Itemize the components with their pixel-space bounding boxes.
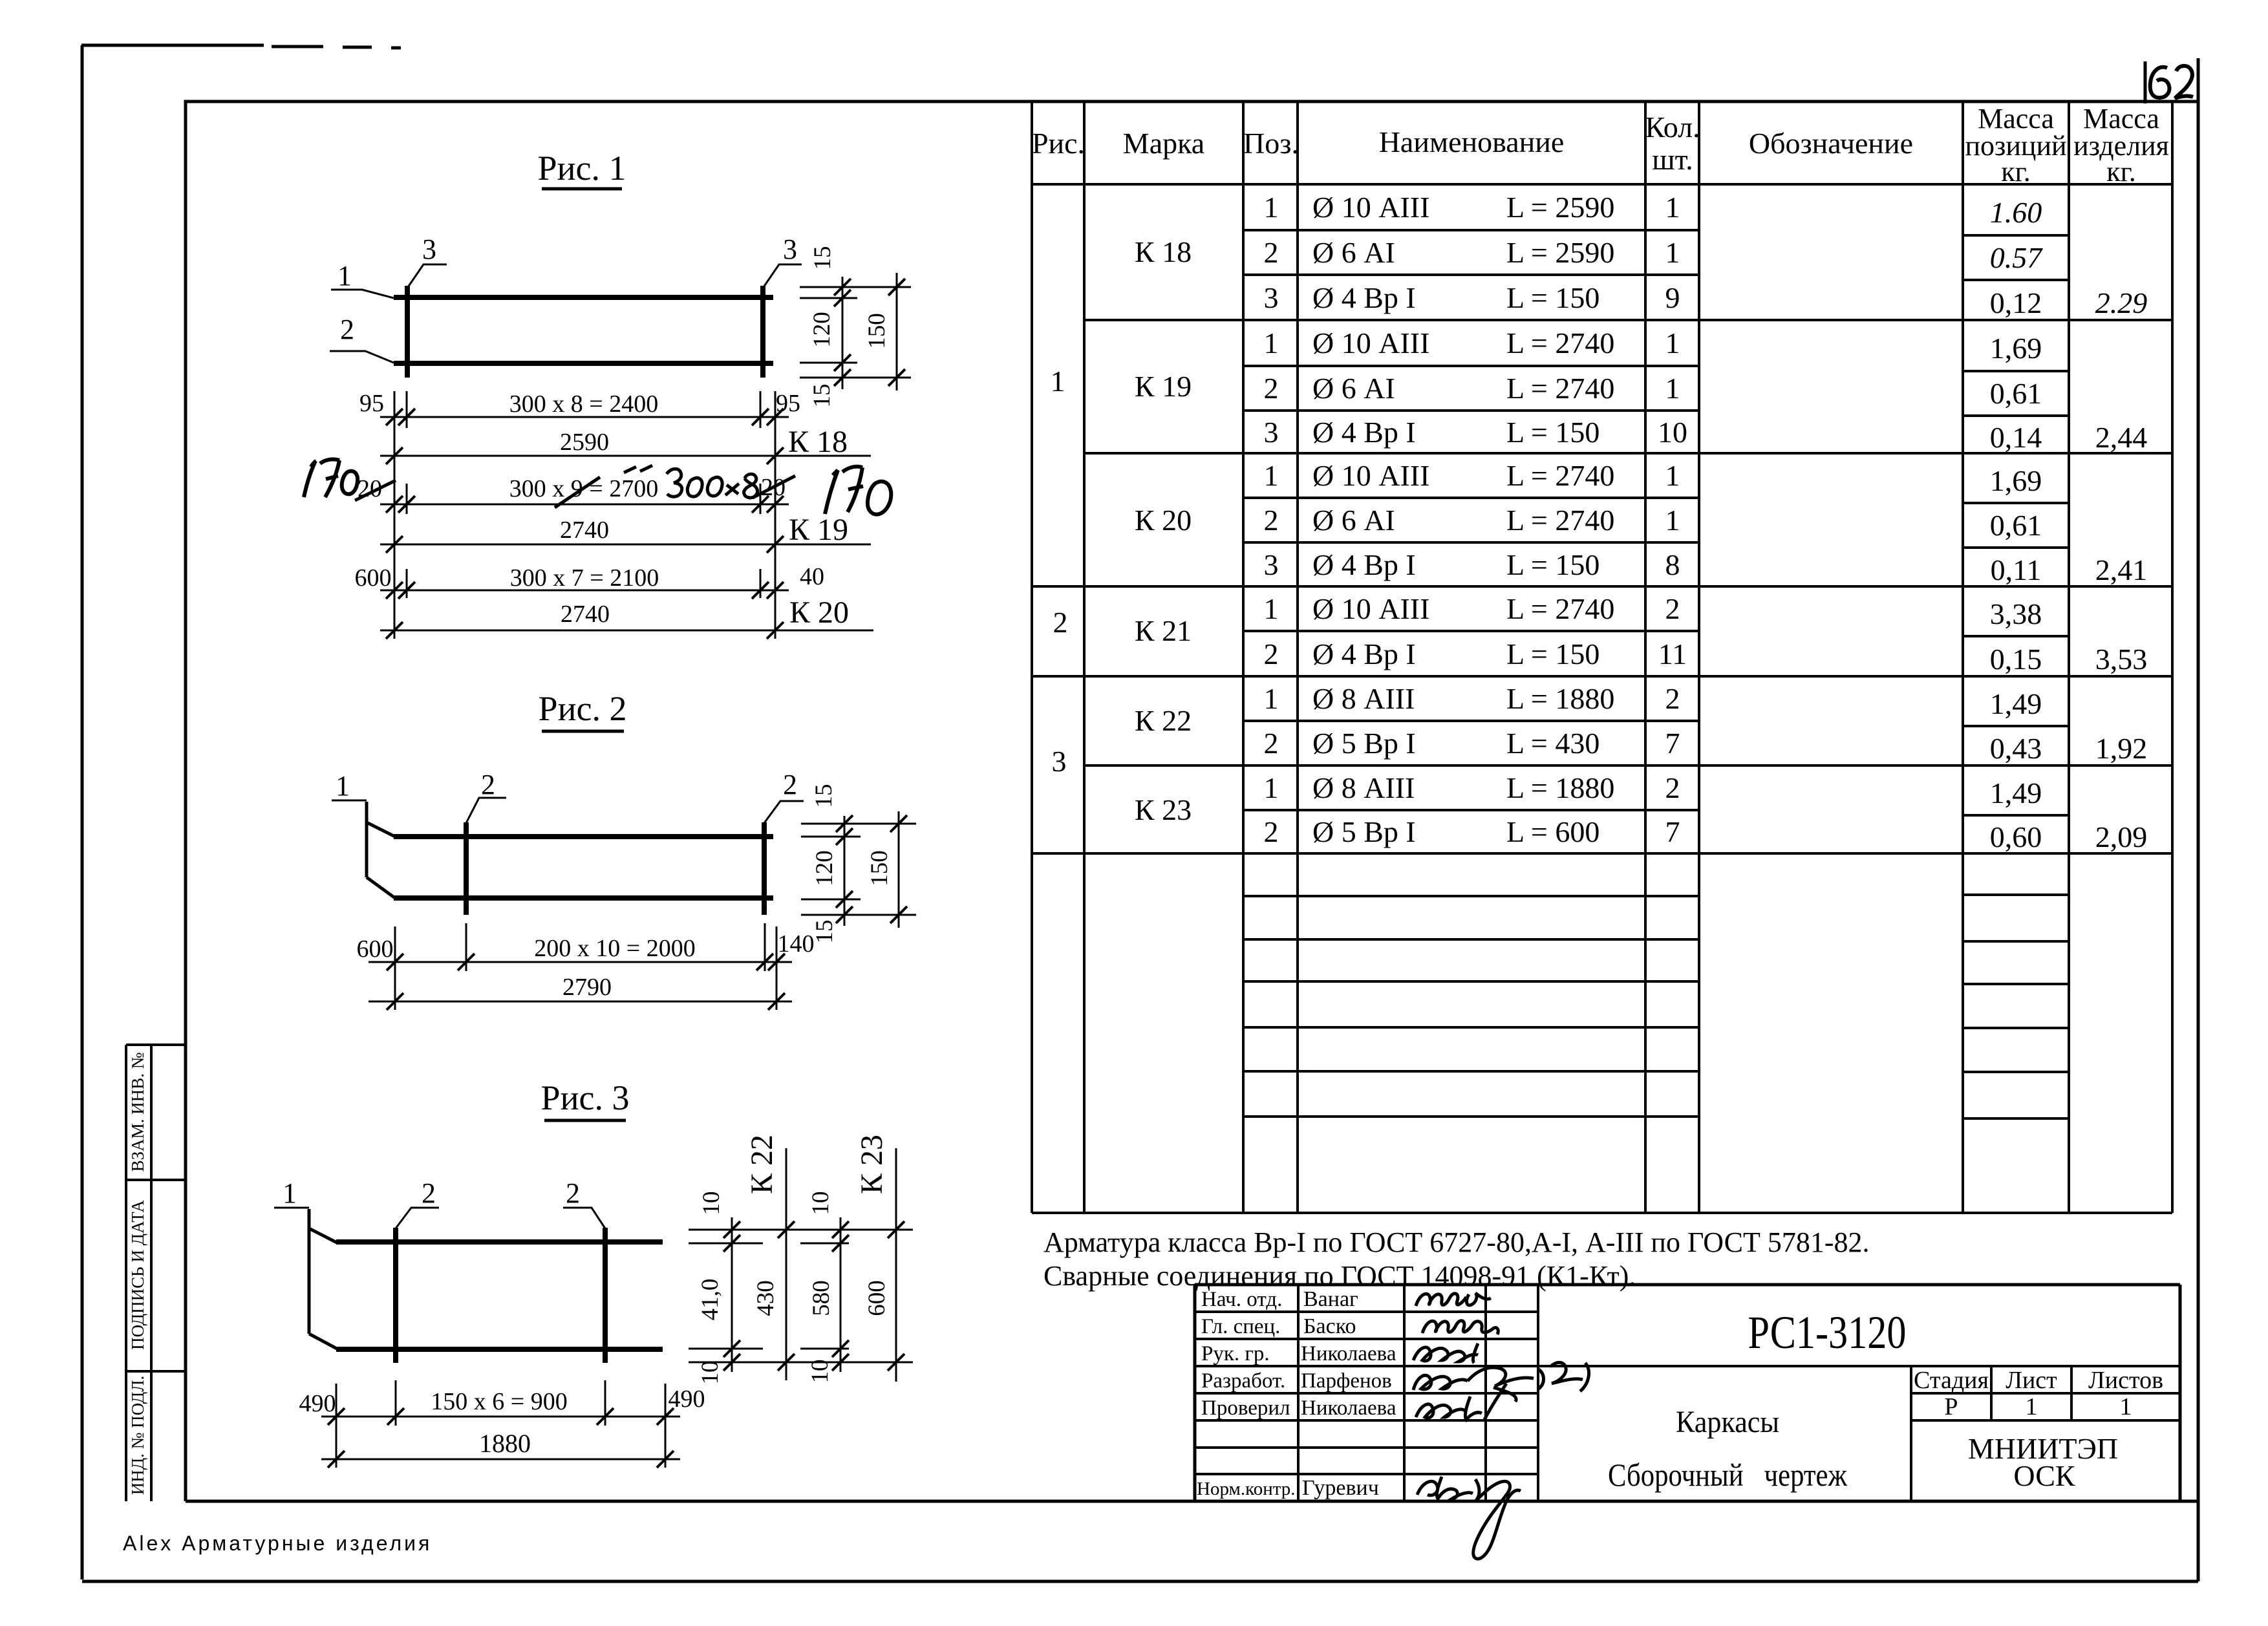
svg-text:0.57: 0.57 (1990, 241, 2044, 274)
signature Баско (1422, 1321, 1498, 1334)
svg-text:кг.: кг. (2106, 156, 2135, 187)
svg-text:3: 3 (783, 233, 797, 265)
fig3 right extension lines (689, 1230, 913, 1362)
svg-text:3: 3 (1264, 416, 1279, 449)
svg-text:Ø 10 АIII: Ø 10 АIII (1312, 326, 1429, 359)
svg-text:Разработ.: Разработ. (1201, 1369, 1285, 1393)
fig1 left cross bar (поз.3) (405, 286, 410, 378)
svg-text:10: 10 (1658, 416, 1687, 449)
title block column lines (1298, 1285, 2071, 1501)
svg-text:Ø 5 Вр I: Ø 5 Вр I (1312, 727, 1416, 760)
svg-text:1: 1 (1665, 236, 1680, 269)
svg-text:10: 10 (698, 1192, 725, 1215)
svg-text:ИНД. № ПОДЛ.: ИНД. № ПОДЛ. (128, 1376, 147, 1495)
svg-text:Лист: Лист (2006, 1367, 2057, 1394)
svg-text:Ø 4 Вр I: Ø 4 Вр I (1312, 281, 1416, 314)
mass column row lines (1963, 235, 2069, 815)
fig1 right cross bar (поз.3) (760, 286, 765, 378)
svg-text:К 18: К 18 (1135, 235, 1192, 268)
fig3 dim line 490|900|490 (321, 1416, 680, 1418)
svg-text:Ø 10 АIII: Ø 10 АIII (1312, 191, 1429, 224)
svg-text:0,15: 0,15 (1990, 643, 2042, 676)
svg-text:Ø 6 АI: Ø 6 АI (1312, 372, 1395, 405)
svg-text:0,12: 0,12 (1990, 286, 2042, 319)
svg-text:Листов: Листов (2088, 1367, 2163, 1394)
svg-text:15: 15 (811, 920, 838, 944)
svg-text:0,43: 0,43 (1990, 732, 2042, 765)
svg-text:0,14: 0,14 (1990, 421, 2042, 454)
svg-text:300 x 7 = 2100: 300 x 7 = 2100 (510, 564, 659, 592)
svg-text:1: 1 (1665, 372, 1680, 405)
svg-text:1: 1 (2120, 1393, 2132, 1420)
svg-text:1,69: 1,69 (1990, 332, 2042, 365)
table block boundary lines (1032, 320, 2172, 853)
svg-text:Наименование: Наименование (1379, 125, 1565, 158)
svg-text:300 x 8 = 2400: 300 x 8 = 2400 (509, 390, 658, 418)
svg-text:Сборочный чертеж: Сборочный чертеж (1608, 1457, 1847, 1493)
fig1 right dim line 15/120/15 (842, 277, 844, 389)
svg-text:2790: 2790 (562, 974, 612, 1001)
svg-text:Парфенов: Парфенов (1301, 1369, 1392, 1393)
svg-text:Ø 4 Вр I: Ø 4 Вр I (1312, 416, 1416, 449)
svg-text:L = 600: L = 600 (1506, 815, 1599, 848)
svg-text:150: 150 (866, 850, 893, 886)
fig1 dim line 600|2100|40 (380, 590, 789, 592)
svg-text:ВЗАМ. ИНВ. №: ВЗАМ. ИНВ. № (128, 1053, 147, 1172)
svg-text:Ø 4 Вр I: Ø 4 Вр I (1312, 637, 1416, 670)
fig2 dim line 600|2000|140 (369, 961, 792, 963)
svg-text:2: 2 (1264, 637, 1279, 670)
svg-text:2: 2 (481, 769, 495, 800)
svg-text:600: 600 (355, 564, 392, 592)
svg-text:11: 11 (1658, 637, 1687, 670)
svg-text:L = 2740: L = 2740 (1506, 372, 1614, 405)
svg-text:1,69: 1,69 (1990, 464, 2042, 497)
svg-text:Каркасы: Каркасы (1676, 1405, 1779, 1439)
fig1 dim line 2590 К18 (380, 455, 871, 457)
svg-text:7: 7 (1665, 815, 1680, 848)
svg-text:Рис. 2: Рис. 2 (539, 689, 627, 728)
svg-text:0,60: 0,60 (1990, 820, 2042, 853)
table position row lines (1243, 230, 1699, 810)
svg-text:К 19: К 19 (1135, 370, 1192, 403)
fig1 witness lines below cage (394, 391, 775, 639)
svg-text:1,92: 1,92 (2095, 732, 2148, 765)
fig3 dim line 1880 (321, 1459, 680, 1460)
svg-text:2590: 2590 (560, 429, 609, 456)
svg-text:3: 3 (422, 233, 436, 265)
fig2 witness lines (395, 923, 776, 1010)
svg-text:Стадия: Стадия (1914, 1367, 1989, 1394)
svg-text:L = 2740: L = 2740 (1506, 504, 1614, 537)
svg-text:2: 2 (1053, 606, 1068, 639)
svg-text:120: 120 (811, 850, 838, 886)
svg-text:К 20: К 20 (789, 595, 849, 630)
svg-text:2: 2 (340, 314, 354, 345)
svg-text:Баско: Баско (1303, 1314, 1356, 1338)
svg-text:1: 1 (1665, 326, 1680, 359)
svg-text:95: 95 (776, 390, 800, 417)
fig1 handwritten 170 right (825, 467, 891, 515)
fig1 handwritten 300x8 (667, 469, 758, 498)
svg-text:1: 1 (2026, 1393, 2038, 1420)
handwritten sheet number 62 (2150, 67, 2170, 98)
svg-text:РС1-3120: РС1-3120 (1748, 1307, 1907, 1358)
svg-text:Нач. отд.: Нач. отд. (1201, 1288, 1282, 1311)
signature Ванаг (1416, 1293, 1491, 1306)
signature Николаева 2 (1416, 1384, 1506, 1420)
fig2 bent bar left end (поз.1) (365, 802, 369, 877)
svg-text:1: 1 (1264, 191, 1279, 224)
svg-text:1,49: 1,49 (1990, 687, 2042, 720)
svg-text:2740: 2740 (560, 517, 609, 544)
svg-text:41,0: 41,0 (697, 1279, 723, 1321)
svg-text:2: 2 (1264, 236, 1279, 269)
scan page left edge (81, 45, 84, 1579)
svg-text:Николаева: Николаева (1301, 1396, 1396, 1420)
svg-text:3,53: 3,53 (2095, 643, 2148, 676)
svg-text:490: 490 (669, 1385, 705, 1413)
fig1 dim line 95|2400|95 (380, 416, 789, 418)
fig1 right extension lines (800, 287, 911, 378)
svg-text:2,41: 2,41 (2095, 553, 2148, 586)
svg-text:L = 2740: L = 2740 (1506, 326, 1614, 359)
svg-text:2: 2 (566, 1177, 580, 1209)
fig3 left cross bar (поз.2) (393, 1228, 398, 1363)
svg-text:120: 120 (809, 312, 835, 348)
fig1 dim line 2740 К20 (380, 630, 873, 632)
svg-text:К 21: К 21 (1135, 614, 1192, 647)
fig3 right cross bar (поз.2) (603, 1228, 608, 1363)
fig1 right dim line 150 (896, 273, 898, 390)
scan page bottom edge (82, 1580, 2198, 1583)
svg-text:Ø 6 АI: Ø 6 АI (1312, 504, 1395, 537)
svg-text:Ø 10 АIII: Ø 10 АIII (1312, 592, 1429, 625)
svg-text:580: 580 (808, 1280, 835, 1316)
svg-text:К 23: К 23 (1135, 793, 1192, 826)
fig3 dim line 600 К23 (895, 1148, 897, 1382)
fig3 dim line 10/410/10 (К22 inner) (731, 1217, 733, 1372)
fig3 witness lines (336, 1380, 665, 1468)
svg-text:Норм.контр.: Норм.контр. (1197, 1479, 1296, 1499)
svg-text:200 x 10 = 2000: 200 x 10 = 2000 (534, 935, 695, 962)
svg-text:L = 430: L = 430 (1506, 727, 1599, 760)
empty row lines (1243, 896, 1699, 1117)
fig1 dim line 20|2700|20 (380, 504, 789, 506)
svg-text:15: 15 (811, 784, 837, 808)
svg-text:490: 490 (299, 1390, 336, 1417)
svg-text:2,44: 2,44 (2095, 421, 2148, 454)
svg-text:L = 1880: L = 1880 (1506, 682, 1614, 715)
fig1 strike marks (355, 465, 795, 508)
svg-text:1: 1 (337, 260, 352, 292)
fig3 bent bar left end (поз.1) (308, 1209, 311, 1334)
svg-text:Гуревич: Гуревич (1302, 1476, 1379, 1500)
table grid vertical lines (1032, 102, 2172, 1213)
svg-text:Рис.: Рис. (1032, 127, 1085, 160)
svg-text:40: 40 (800, 563, 824, 590)
svg-text:кг.: кг. (2001, 156, 2030, 187)
fig3 dim line 430 К22 (786, 1148, 787, 1380)
svg-text:1: 1 (1051, 365, 1065, 398)
svg-text:Николаева: Николаева (1301, 1342, 1396, 1365)
svg-text:1: 1 (1264, 326, 1279, 359)
svg-text:2.29: 2.29 (2095, 286, 2148, 319)
svg-text:К 18: К 18 (788, 425, 848, 459)
svg-text:Р: Р (1944, 1393, 1958, 1420)
fig3 bottom bar (336, 1347, 663, 1352)
svg-text:10: 10 (808, 1192, 834, 1215)
svg-text:Проверил: Проверил (1201, 1396, 1290, 1420)
svg-text:0,61: 0,61 (1990, 509, 2042, 542)
fig2 left cross bar (поз.2) (464, 822, 469, 915)
svg-text:L = 150: L = 150 (1506, 548, 1599, 581)
svg-text:2: 2 (1665, 771, 1680, 804)
svg-text:L = 150: L = 150 (1506, 281, 1599, 314)
svg-text:Марка: Марка (1123, 127, 1204, 160)
fig2 dim line 2790 (369, 1001, 792, 1003)
svg-text:1: 1 (1264, 459, 1279, 492)
fig2 right dim line 150 (898, 811, 900, 928)
svg-text:Обозначение: Обозначение (1749, 127, 1913, 160)
fig2 right extension lines (801, 824, 916, 915)
svg-text:2: 2 (1665, 592, 1680, 625)
svg-text:Рис. 1: Рис. 1 (538, 149, 626, 187)
svg-text:L = 2590: L = 2590 (1506, 236, 1614, 269)
svg-text:ОСК: ОСК (2013, 1459, 2075, 1492)
svg-text:600: 600 (864, 1280, 890, 1316)
fig1 handwritten 170 left (304, 459, 358, 497)
table header bottom line (1032, 183, 2172, 186)
svg-text:L = 150: L = 150 (1506, 416, 1599, 449)
table bottom line (1032, 1212, 2172, 1214)
svg-text:L = 2740: L = 2740 (1506, 459, 1614, 492)
svg-text:600: 600 (357, 936, 394, 963)
svg-text:Ø 10 АIII: Ø 10 АIII (1312, 459, 1429, 492)
svg-text:Ø 6 АI: Ø 6 АI (1312, 236, 1395, 269)
svg-text:1: 1 (1665, 459, 1680, 492)
svg-text:L = 150: L = 150 (1506, 637, 1599, 670)
svg-text:7: 7 (1665, 727, 1680, 760)
svg-text:0,61: 0,61 (1990, 377, 2042, 410)
fig2 bottom bar (394, 895, 773, 901)
svg-text:3: 3 (1264, 281, 1279, 314)
svg-text:L = 2740: L = 2740 (1506, 592, 1614, 625)
svg-text:1880: 1880 (479, 1429, 531, 1458)
fig3 top bar (поз.1) (336, 1239, 663, 1245)
svg-text:150 x 6 = 900: 150 x 6 = 900 (431, 1388, 567, 1415)
sheet number box line (2144, 61, 2147, 103)
svg-text:2: 2 (1264, 504, 1279, 537)
svg-text:0,11: 0,11 (1991, 553, 2042, 586)
svg-text:1,49: 1,49 (1990, 776, 2042, 809)
svg-text:К 19: К 19 (789, 513, 848, 547)
svg-text:3,38: 3,38 (1990, 597, 2042, 630)
svg-text:Поз.: Поз. (1243, 127, 1299, 160)
fig1 top bar (поз.1) (394, 295, 773, 300)
svg-text:К 22: К 22 (1135, 704, 1192, 737)
svg-text:Ванаг: Ванаг (1303, 1287, 1358, 1311)
svg-text:2: 2 (783, 769, 797, 800)
svg-text:15: 15 (809, 384, 835, 408)
svg-text:2: 2 (422, 1177, 436, 1209)
scan page top edge (81, 45, 401, 48)
svg-text:1: 1 (336, 770, 350, 802)
svg-text:Ø 8 АIII: Ø 8 АIII (1312, 682, 1415, 715)
svg-text:10: 10 (807, 1360, 833, 1384)
svg-text:140: 140 (778, 930, 815, 957)
svg-text:Ø 5 Вр I: Ø 5 Вр I (1312, 815, 1416, 848)
left stamp boxes (126, 1045, 187, 1501)
svg-text:ПОДПИСЬ И ДАТА: ПОДПИСЬ И ДАТА (128, 1200, 147, 1350)
svg-text:Гл. спец.: Гл. спец. (1201, 1315, 1280, 1338)
fig2 right cross bar (поз.2) (762, 822, 767, 915)
svg-text:К 23: К 23 (855, 1135, 889, 1194)
svg-text:8: 8 (1665, 548, 1680, 581)
svg-text:Арматура класса Вр-I по ГОСТ: Арматура класса Вр-I по ГОСТ 6727-80,А-I… (1043, 1226, 1869, 1258)
svg-text:1: 1 (1264, 771, 1279, 804)
svg-text:К 20: К 20 (1135, 504, 1192, 537)
svg-text:2: 2 (1264, 727, 1279, 760)
svg-text:Alex Арматурные изделия: Alex Арматурные изделия (123, 1532, 432, 1555)
svg-text:430: 430 (753, 1280, 779, 1316)
svg-text:15: 15 (809, 246, 836, 270)
signature Парфенов with flourish (1413, 1362, 1589, 1402)
svg-text:Ø 4 Вр I: Ø 4 Вр I (1312, 548, 1416, 581)
svg-text:2740: 2740 (561, 601, 610, 628)
fig1 dim line 2740 К19 (380, 544, 871, 546)
title block outer and row lines (1195, 1285, 2180, 1501)
svg-text:2: 2 (1264, 372, 1279, 405)
svg-text:2: 2 (1665, 682, 1680, 715)
svg-text:2: 2 (1264, 815, 1279, 848)
svg-text:К 22: К 22 (745, 1135, 779, 1194)
svg-text:Рис. 3: Рис. 3 (541, 1078, 630, 1117)
svg-text:Кол.: Кол. (1645, 111, 1700, 144)
svg-text:Рук. гр.: Рук. гр. (1201, 1342, 1270, 1365)
fig2 right dim line 15/120/15 (844, 816, 846, 926)
svg-text:10: 10 (697, 1361, 723, 1385)
fig1 bottom bar (поз.2) (394, 361, 773, 366)
svg-text:3: 3 (1264, 548, 1279, 581)
svg-text:9: 9 (1665, 281, 1680, 314)
svg-text:95: 95 (359, 390, 384, 417)
svg-text:1: 1 (283, 1177, 297, 1209)
svg-text:3: 3 (1052, 745, 1067, 778)
signature Николаева 1 (1413, 1343, 1478, 1363)
svg-text:1: 1 (1264, 682, 1279, 715)
svg-text:1.60: 1.60 (1990, 196, 2042, 229)
svg-text:150: 150 (864, 313, 890, 349)
svg-text:2,09: 2,09 (2095, 820, 2148, 853)
svg-text:Ø 8 АIII: Ø 8 АIII (1312, 771, 1415, 804)
svg-text:L = 1880: L = 1880 (1506, 771, 1614, 804)
svg-text:L = 2590: L = 2590 (1506, 191, 1614, 224)
signature Гуревич (1417, 1477, 1521, 1559)
svg-text:1: 1 (1264, 592, 1279, 625)
svg-text:1: 1 (1665, 191, 1680, 224)
svg-text:1: 1 (1665, 504, 1680, 537)
svg-text:шт.: шт. (1652, 143, 1693, 176)
fig3 dim line 10/580/10 (К23 inner) (840, 1217, 842, 1372)
fig2 top bar (поз.1) (394, 834, 773, 839)
